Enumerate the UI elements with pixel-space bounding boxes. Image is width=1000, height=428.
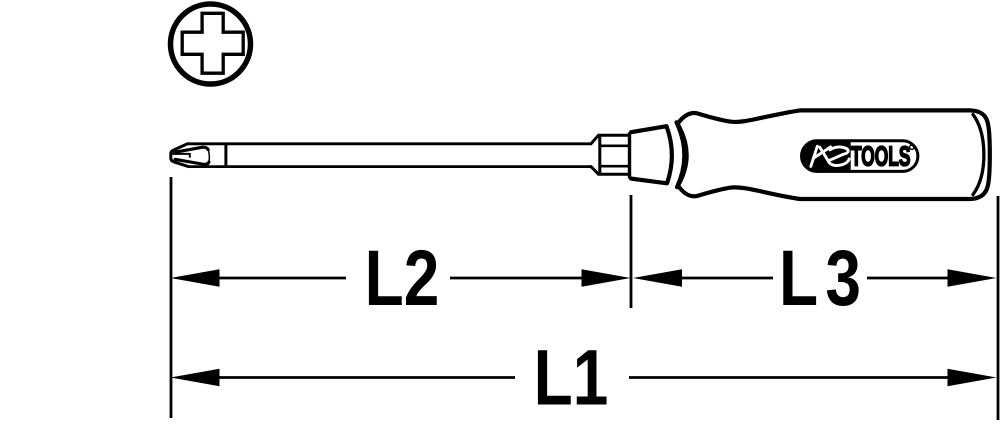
L2 right arrowhead: [582, 269, 631, 286]
logo registered mark: [910, 145, 914, 149]
middle extension line: [630, 195, 633, 308]
phillips bit icon circle: [171, 4, 251, 84]
logo KS script leg-swoosh: [820, 147, 849, 165]
hex-ferrule boundary: [628, 133, 631, 179]
L1 left arrowhead: [171, 369, 220, 386]
L3 dimension line: [682, 277, 948, 280]
svg-text:L1: L1: [534, 334, 609, 422]
tip upper flute: [175, 147, 209, 152]
L3 left arrowhead: [633, 269, 682, 286]
logo KS script S: [830, 147, 849, 160]
screwdriver tip outline: [171, 144, 189, 167]
L2 dimension line: [219, 277, 582, 280]
phillips cross symbol: [182, 13, 243, 73]
shaft top line: [188, 142, 592, 145]
handle outline: [678, 110, 990, 199]
logo KS script K: [811, 146, 831, 166]
logo black left field: [800, 140, 850, 173]
L2 left arrowhead: [171, 269, 220, 286]
tip lower flute: [175, 159, 209, 164]
handle end cap inner arc: [973, 115, 984, 195]
tip center line: [172, 153, 190, 158]
ferrule: [631, 126, 672, 183]
hex facet lines: [600, 146, 630, 166]
collar ring arc: [677, 122, 685, 187]
L1 dimension line: [219, 376, 948, 379]
L1 right arrowhead: [948, 369, 997, 386]
shaft bottom line: [189, 165, 592, 168]
L3 right arrowhead: [948, 269, 997, 286]
tip-shaft boundary: [224, 144, 227, 167]
left extension line: [170, 177, 173, 418]
svg-text:TOOLS: TOOLS: [851, 141, 911, 172]
hex bolster: [591, 135, 630, 174]
right extension line: [997, 196, 1000, 420]
tip flute back arc: [208, 150, 209, 162]
KS Tools logo stadium: [802, 141, 918, 172]
svg-text:L2: L2: [365, 234, 440, 322]
